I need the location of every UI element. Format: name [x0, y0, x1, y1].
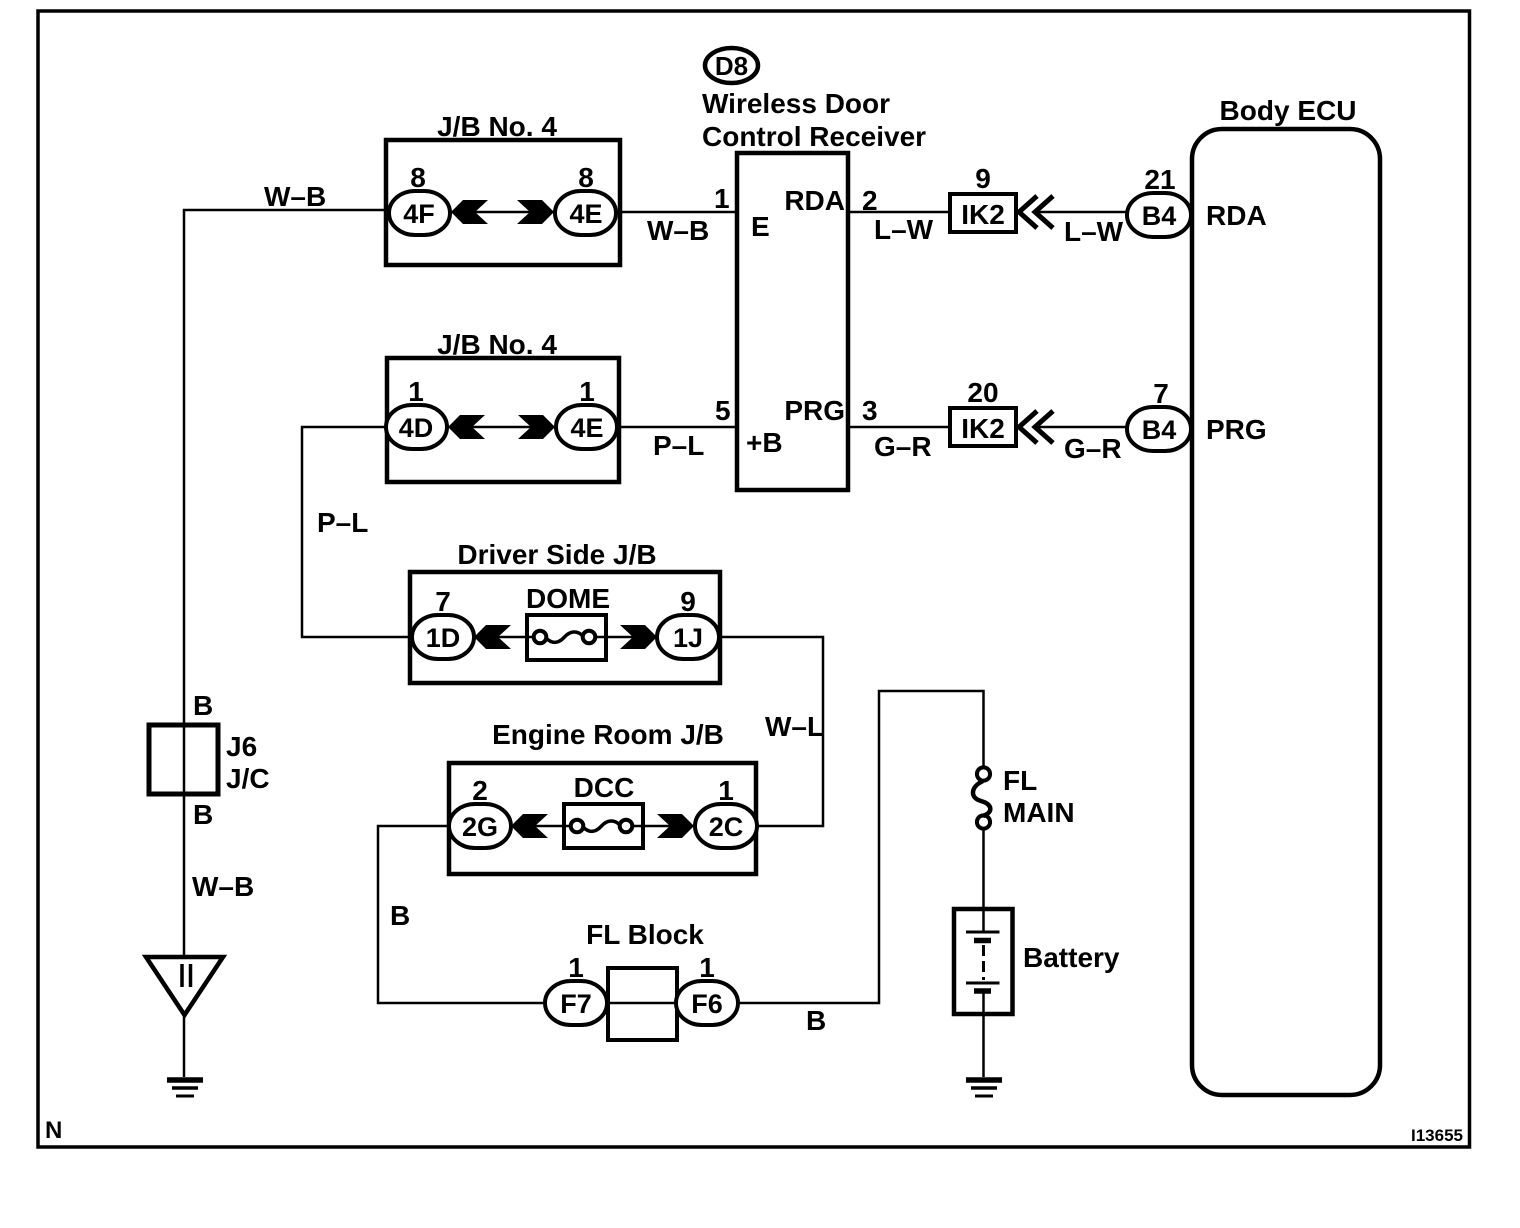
svg-text:E: E — [751, 211, 770, 242]
svg-text:7: 7 — [1153, 378, 1169, 409]
svg-text:P–L: P–L — [653, 430, 704, 461]
svg-text:1: 1 — [718, 775, 734, 806]
svg-text:2: 2 — [862, 185, 878, 216]
svg-text:Battery: Battery — [1023, 942, 1120, 973]
svg-text:FL: FL — [1003, 765, 1037, 796]
svg-text:1: 1 — [579, 376, 595, 407]
svg-text:J6: J6 — [226, 731, 257, 762]
svg-text:9: 9 — [975, 163, 991, 194]
svg-text:J/B No. 4: J/B No. 4 — [437, 329, 557, 360]
svg-text:DOME: DOME — [526, 583, 610, 614]
svg-text:J/C: J/C — [226, 763, 270, 794]
svg-text:IK2: IK2 — [961, 199, 1005, 230]
svg-text:Body ECU: Body ECU — [1220, 95, 1357, 126]
svg-text:DCC: DCC — [574, 772, 635, 803]
svg-text:F7: F7 — [560, 989, 592, 1019]
svg-text:Control Receiver: Control Receiver — [702, 121, 926, 152]
svg-text:RDA: RDA — [1206, 200, 1267, 231]
svg-text:J/B No. 4: J/B No. 4 — [437, 111, 557, 142]
svg-text:2G: 2G — [462, 812, 498, 842]
svg-text:F6: F6 — [691, 989, 723, 1019]
svg-text:B: B — [806, 1005, 826, 1036]
svg-text:B: B — [193, 690, 213, 721]
svg-text:Engine Room J/B: Engine Room J/B — [492, 719, 724, 750]
svg-text:B: B — [193, 799, 213, 830]
svg-text:W–L: W–L — [765, 711, 824, 742]
svg-text:1J: 1J — [673, 623, 703, 653]
svg-text:1D: 1D — [426, 623, 461, 653]
svg-text:4E: 4E — [569, 199, 602, 229]
svg-text:MAIN: MAIN — [1003, 797, 1075, 828]
svg-text:1: 1 — [699, 952, 715, 983]
svg-text:G–R: G–R — [1064, 433, 1122, 464]
svg-text:4F: 4F — [403, 199, 435, 229]
svg-text:Wireless Door: Wireless Door — [702, 88, 890, 119]
svg-text:N: N — [45, 1117, 62, 1144]
svg-text:5: 5 — [715, 395, 731, 426]
svg-text:3: 3 — [862, 395, 878, 426]
svg-text:IK2: IK2 — [961, 413, 1005, 444]
svg-text:4D: 4D — [399, 413, 434, 443]
svg-text:9: 9 — [680, 586, 696, 617]
svg-text:1: 1 — [714, 183, 730, 214]
svg-text:21: 21 — [1144, 164, 1175, 195]
svg-text:W–B: W–B — [192, 871, 254, 902]
svg-text:Driver Side J/B: Driver Side J/B — [457, 539, 656, 570]
svg-text:B4: B4 — [1142, 415, 1177, 445]
svg-text:FL Block: FL Block — [586, 919, 704, 950]
svg-text:B4: B4 — [1142, 201, 1177, 231]
svg-text:+B: +B — [746, 427, 783, 458]
svg-text:W–B: W–B — [647, 215, 709, 246]
svg-text:4E: 4E — [570, 413, 603, 443]
svg-text:PRG: PRG — [1206, 414, 1267, 445]
svg-text:B: B — [390, 900, 410, 931]
svg-text:P–L: P–L — [317, 507, 368, 538]
svg-text:1: 1 — [408, 376, 424, 407]
svg-text:RDA: RDA — [784, 185, 845, 216]
svg-text:L–W: L–W — [874, 214, 934, 245]
svg-text:W–B: W–B — [264, 181, 326, 212]
svg-text:7: 7 — [435, 586, 451, 617]
svg-text:1: 1 — [568, 952, 584, 983]
svg-text:PRG: PRG — [784, 395, 845, 426]
svg-text:I13655: I13655 — [1411, 1126, 1463, 1145]
svg-text:D8: D8 — [715, 51, 748, 81]
svg-text:G–R: G–R — [874, 431, 932, 462]
svg-text:20: 20 — [967, 377, 998, 408]
svg-text:L–W: L–W — [1064, 216, 1124, 247]
svg-text:8: 8 — [410, 162, 426, 193]
svg-text:2: 2 — [472, 775, 488, 806]
svg-text:8: 8 — [578, 162, 594, 193]
svg-text:2C: 2C — [709, 812, 744, 842]
